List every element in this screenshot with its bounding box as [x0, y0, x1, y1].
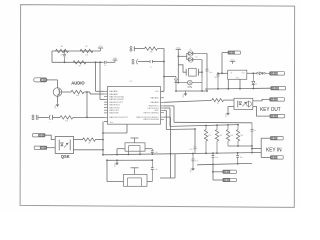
svg-text:0.1u: 0.1u: [155, 152, 158, 154]
label QSK: [61, 154, 70, 159]
svg-text:10u: 10u: [214, 77, 217, 79]
wire bus line2: [164, 108, 239, 126]
junction node A: [95, 61, 97, 63]
microcontroller U1 PIC16F628: [104, 81, 164, 124]
resistor R11: [204, 126, 211, 154]
wire bus to C8: [194, 129, 196, 146]
wire extra rail tap: [227, 79, 229, 89]
pushbutton SW1: [125, 138, 145, 155]
power VDD tap regulator: [230, 59, 235, 64]
capacitor C10 10u: [212, 153, 218, 164]
svg-text:RA1/AN1: RA1/AN1: [150, 97, 159, 100]
junction CLK-C5: [163, 61, 165, 63]
wire ground rail G2: [106, 159, 153, 161]
label KEY IN: [266, 147, 282, 153]
connector J2 contacts: [32, 115, 38, 120]
svg-text:KEY OUT: KEY OUT: [260, 107, 281, 113]
wire loop bottom: [160, 177, 175, 179]
diode D2: [187, 57, 202, 63]
wire J6 to VR1 in: [221, 53, 228, 75]
wire long drop b: [174, 154, 176, 178]
svg-text:10K: 10K: [230, 135, 233, 137]
resistor R12: [215, 125, 222, 153]
wire bracket to J12: [261, 156, 270, 158]
svg-text:47K: 47K: [61, 54, 64, 56]
svg-text:10u: 10u: [240, 157, 243, 159]
wire SW2 left stub: [107, 160, 124, 181]
zener D5: [252, 73, 257, 88]
wire crystal ground rail: [175, 90, 208, 92]
wire Q1 emitter down: [57, 96, 59, 102]
wire bus line1: [164, 106, 252, 123]
connector J12: [270, 156, 283, 159]
wire G3 right link: [251, 158, 253, 163]
resistor R6: [71, 90, 84, 97]
crystal X1: [178, 65, 203, 76]
svg-text:0.1u: 0.1u: [155, 169, 158, 171]
ground C12: [190, 166, 195, 173]
svg-text:10u: 10u: [215, 157, 218, 159]
label KEY OUT: [260, 107, 281, 113]
capacitor C7 10u: [214, 73, 219, 88]
transistor Q1: [53, 88, 62, 97]
wire pills drop: [212, 164, 214, 180]
optocoupler U3 key out: [234, 98, 253, 109]
wire diode outputs down: [202, 53, 207, 77]
capacitor C1 0.1: [104, 61, 106, 67]
capacitor C11 10u: [236, 153, 242, 164]
wire SW1 left stub: [117, 149, 125, 155]
svg-text:AUDIO: AUDIO: [71, 81, 85, 86]
wire J4 to R9: [135, 48, 145, 50]
wire audio node down to pin row: [86, 91, 88, 118]
capacitor C6 10u: [206, 69, 212, 91]
svg-text:D1: D1: [190, 49, 192, 51]
wire C4 to R7: [53, 116, 60, 118]
wire key-in upper h: [251, 148, 261, 150]
wire VR1 in: [217, 72, 228, 74]
ground GND bar tap: [113, 58, 118, 62]
svg-text:RA5/MCLR/VPP: RA5/MCLR/VPP: [109, 98, 124, 101]
wire key-in bracket: [260, 138, 262, 157]
pushbutton SW2: [124, 168, 148, 187]
capacitor C5 1u: [150, 60, 153, 68]
ground G2 tap: [114, 160, 119, 167]
wire VR1 out: [247, 72, 257, 74]
connector J3 pin a: [33, 134, 46, 137]
svg-text:47K: 47K: [85, 54, 88, 56]
wire ground rail G3: [197, 163, 252, 165]
wire node A to U1 pin1: [96, 62, 105, 91]
wire bracket to J11: [261, 137, 270, 139]
wire U1 to R10: [164, 100, 212, 102]
wire speaker to Q1 collector: [47, 80, 58, 88]
svg-text:10K: 10K: [219, 135, 222, 137]
svg-text:47K: 47K: [208, 135, 211, 137]
svg-text:10u: 10u: [209, 72, 212, 74]
resistor R8: [83, 138, 96, 145]
resistor R9: [145, 47, 158, 54]
wire diode feed bar: [178, 53, 187, 60]
connector J5 contacts: [132, 59, 138, 64]
capacitor C14 0.1u: [151, 160, 158, 181]
ground U3: [225, 111, 230, 118]
connector J6 power: [228, 51, 241, 54]
wire top-left lower rail: [52, 61, 115, 63]
wire SW1 right stub: [145, 148, 152, 150]
resistor R7: [60, 116, 73, 123]
connector J3 pin b: [34, 146, 47, 149]
svg-text:47K: 47K: [65, 120, 68, 122]
svg-text:10K: 10K: [240, 135, 243, 137]
wire R7 to U1 pin: [73, 116, 104, 118]
connector J11: [270, 137, 283, 140]
resistor R4: [56, 46, 69, 56]
svg-text:ZD: ZD: [255, 84, 257, 86]
connector J10: [270, 115, 285, 118]
svg-text:RA2/AN2: RA2/AN2: [109, 90, 118, 93]
wire power ground rail: [176, 88, 271, 91]
svg-text:R5: R5: [86, 46, 88, 48]
svg-text:0.1u: 0.1u: [189, 149, 192, 151]
svg-text:RA0/AN0: RA0/AN0: [150, 101, 159, 104]
wire long drop a: [164, 117, 171, 178]
wire top-left upper rail: [52, 51, 101, 62]
wire tap to U1 pin4: [99, 61, 104, 99]
svg-text:OUT: OUT: [242, 72, 245, 74]
wire VR1 ground stem: [239, 79, 241, 88]
zener D3: [174, 77, 177, 92]
capacitor C9 .1u: [251, 123, 257, 154]
wire ground rail G1: [103, 152, 252, 156]
power VDD above R5: [98, 46, 103, 51]
wire key-in lower h: [252, 152, 261, 154]
svg-text:4.7u: 4.7u: [195, 161, 198, 163]
capacitor C4 polarized: [49, 115, 53, 124]
diode D1: [187, 49, 207, 56]
svg-text:RA4/T0CKI/CM2: RA4/T0CKI/CM2: [109, 95, 125, 98]
connector J9: [270, 98, 285, 101]
wire U3 out to J9: [253, 99, 270, 101]
wire J2 to C4: [38, 116, 49, 118]
svg-text:RB4/PGM: RB4/PGM: [109, 113, 118, 115]
wire R13 R14 join: [228, 145, 252, 147]
svg-text:1K: 1K: [217, 103, 219, 105]
svg-text:1: 1: [67, 58, 68, 60]
resistor R13: [226, 125, 233, 146]
svg-text:RB2/TX/CK: RB2/TX/CK: [109, 107, 120, 109]
ground crystal cluster: [183, 91, 188, 98]
ground below Q1: [55, 102, 60, 109]
diode D4: [257, 72, 270, 75]
capacitor C8 0.1u: [189, 147, 196, 153]
optocoupler U2 QSK: [55, 137, 73, 154]
svg-text:.1u: .1u: [254, 130, 256, 132]
wire R6 to U1 pin2: [62, 92, 104, 94]
wire bus line3: [164, 110, 196, 130]
svg-text:1K: 1K: [88, 143, 90, 145]
voltage regulator VR1: [228, 70, 247, 79]
junction CLK-zener: [163, 76, 165, 78]
wire C5 to CLK column: [152, 61, 164, 63]
connector J14: [223, 178, 237, 181]
wire J3a to U2: [45, 135, 55, 139]
lamp DS1 3.6V: [178, 78, 202, 92]
connector J7: [270, 72, 285, 75]
svg-text:KEY IN: KEY IN: [266, 147, 282, 153]
wire U3 lower out to J10: [253, 107, 270, 117]
svg-text:CLK: CLK: [155, 91, 160, 93]
svg-text:R4: R4: [61, 46, 63, 48]
capacitor C12 4.7u: [192, 154, 199, 166]
schematic sheet border frame: [20, 5, 295, 208]
svg-text:RB5/T1CKI/PGM: RB5/T1CKI/PGM: [143, 119, 159, 121]
connector J13: [223, 170, 237, 173]
connector J8: [271, 87, 286, 90]
resistor R10: [212, 98, 224, 105]
wire drop to J13: [213, 171, 223, 173]
power VDD crystal cluster: [176, 47, 181, 83]
connector J4 contacts: [130, 46, 134, 51]
svg-text:RB1/RX/DT: RB1/RX/DT: [109, 105, 120, 107]
wire node B column: [102, 122, 107, 156]
svg-text:5.6K: 5.6K: [76, 95, 79, 97]
wire R9 to CLK column: [158, 49, 165, 92]
wire drop to J14: [213, 179, 223, 181]
wire U1 bottom drop: [103, 124, 127, 133]
svg-text:1u: 1u: [150, 66, 152, 68]
svg-text:QSK: QSK: [61, 154, 70, 159]
svg-text:0.1: 0.1: [104, 65, 106, 67]
resistor R3: [73, 61, 86, 68]
svg-text:D2: D2: [196, 57, 198, 59]
wire R10 to U3: [224, 99, 234, 101]
wire zener tap: [164, 76, 176, 78]
wire U3 lower-left to ground: [228, 107, 234, 111]
speaker LS1: [34, 78, 47, 82]
svg-text:RB0/INT/CCP1: RB0/INT/CCP1: [109, 102, 123, 104]
wire U2 lower out: [74, 149, 104, 151]
wire U2 out to R8: [74, 139, 84, 141]
capacitor C2 between rails: [63, 50, 67, 63]
svg-text:RB7/T1OSI/PGD: RB7/T1OSI/PGD: [144, 112, 160, 114]
resistor R5: [80, 46, 93, 56]
wire J5 to C5: [138, 61, 149, 63]
svg-text:RA3/AN3: RA3/AN3: [109, 93, 118, 96]
label AUDIO: [71, 81, 85, 86]
svg-text:24K: 24K: [150, 52, 153, 54]
wire J3b to U2: [47, 147, 56, 149]
wire R8 to node B: [95, 139, 104, 141]
capacitor C13 0.1u: [151, 149, 158, 154]
svg-text:3.6V: 3.6V: [187, 87, 192, 89]
resistor R14: [236, 125, 243, 146]
wire SW2 right stub: [147, 181, 152, 183]
svg-text:RB3/CCP1: RB3/CCP1: [109, 110, 120, 112]
svg-text:RA6/OSC2/CLKOUT: RA6/OSC2/CLKOUT: [109, 116, 128, 119]
svg-text:Vss: Vss: [110, 122, 113, 124]
